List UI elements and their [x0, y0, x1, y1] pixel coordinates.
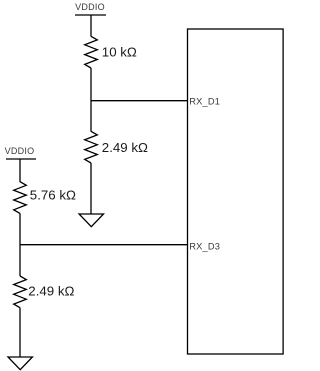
resistor 2.49 kOhm (branch 2)	[14, 276, 27, 308]
svg-text:5.76 kΩ: 5.76 kΩ	[30, 187, 76, 202]
wire node to RX_D3 pin	[20, 244, 188, 246]
svg-text:2.49 kΩ: 2.49 kΩ	[28, 284, 74, 299]
resistor 2.49 kOhm (branch 1)	[85, 131, 98, 163]
value label 5.76 kOhm	[30, 187, 76, 202]
svg-text:VDDIO: VDDIO	[75, 2, 105, 12]
pin label RX_D1	[189, 97, 220, 107]
svg-text:RX_D3: RX_D3	[189, 242, 220, 252]
wire R1 bottom to node RX_D1 and to R2 top	[90, 68, 92, 132]
value label 2.49 kOhm (branch 2)	[28, 284, 74, 299]
value label 10 kOhm	[102, 44, 137, 59]
wire VDDIO bar to R1 top	[90, 15, 92, 37]
resistor 5.76 kOhm	[14, 182, 27, 214]
ground (branch 2)	[8, 357, 32, 370]
svg-text:RX_D1: RX_D1	[189, 97, 220, 107]
wire VDDIO bar to R3 top	[19, 159, 21, 182]
wire R4 bottom to ground	[19, 308, 21, 357]
svg-text:VDDIO: VDDIO	[5, 146, 35, 156]
power VDDIO (branch 2)	[5, 146, 36, 159]
wire node to RX_D1 pin	[91, 100, 188, 102]
power VDDIO (branch 1)	[75, 2, 106, 15]
svg-text:10 kΩ: 10 kΩ	[102, 44, 137, 59]
value label 2.49 kOhm (branch 1)	[102, 140, 148, 155]
pin label RX_D3	[189, 242, 220, 252]
wire R3 bottom to node RX_D3 and to R4 top	[19, 213, 21, 276]
svg-text:2.49 kΩ: 2.49 kΩ	[102, 140, 148, 155]
ground (branch 1)	[79, 214, 103, 227]
wire R2 bottom to ground	[90, 163, 92, 214]
resistor 10 kOhm	[85, 36, 98, 68]
IC box U1	[188, 29, 284, 354]
